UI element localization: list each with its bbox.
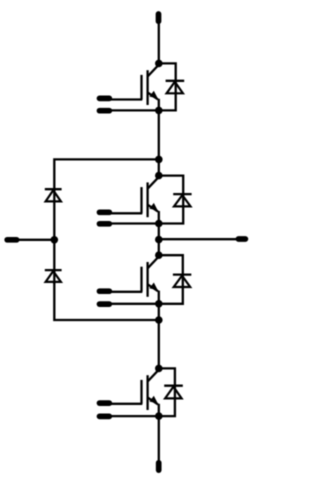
emitter terminal E4 bbox=[100, 413, 159, 419]
gate terminal G1 bbox=[100, 98, 143, 99]
wire (E1 to Q2 collector) bbox=[158, 110, 160, 175]
diode D2 (antiparallel with Q2) bbox=[159, 176, 192, 224]
emitter terminal E2 bbox=[100, 221, 159, 227]
terminal DC+ (top) bbox=[156, 14, 162, 21]
diode D6 (lower clamp) bbox=[45, 240, 62, 284]
wire (E3 to Q4 collector) bbox=[158, 304, 160, 369]
gate terminal G4 bbox=[100, 400, 143, 406]
node E4 bbox=[155, 412, 163, 420]
node A (upper clamp junction) bbox=[155, 156, 163, 164]
node M (rail junction) bbox=[51, 236, 59, 244]
node E3 bbox=[155, 300, 163, 308]
wire (E2 to Q3 collector through output node) bbox=[158, 224, 160, 256]
node C2 bbox=[155, 172, 163, 180]
IGBT Q1 bbox=[142, 65, 159, 111]
node C1 bbox=[155, 60, 163, 68]
gate terminal G3 bbox=[100, 288, 143, 294]
IGBT Q4 bbox=[142, 370, 159, 416]
diode D3 (antiparallel with Q3) bbox=[159, 255, 192, 304]
emitter terminal E1 bbox=[100, 108, 159, 114]
wire (E4 to bottom terminal) bbox=[158, 416, 160, 465]
diode D5 (upper clamp) bbox=[45, 188, 62, 240]
terminal N (left midpoint) bbox=[7, 237, 54, 243]
IGBT Q2 bbox=[142, 177, 159, 224]
terminal DC- (bottom) bbox=[156, 463, 162, 470]
node C4 bbox=[155, 365, 163, 373]
emitter terminal E3 bbox=[100, 301, 159, 307]
gate terminal G2 bbox=[100, 212, 143, 213]
wire (output node to right terminal) bbox=[159, 238, 239, 240]
node E2 bbox=[155, 220, 163, 228]
node OUT bbox=[155, 236, 163, 244]
diode D1 (antiparallel with Q1) bbox=[159, 63, 184, 110]
node C3 bbox=[155, 251, 163, 259]
node E1 bbox=[155, 107, 163, 115]
IGBT Q3 bbox=[142, 257, 159, 304]
wire (clamp node A to left rail) bbox=[54, 159, 159, 191]
terminal AC (right output) bbox=[238, 236, 245, 242]
wire (top terminal to Q1 collector) bbox=[158, 18, 160, 63]
wire (left rail to clamp node B) bbox=[54, 282, 159, 320]
node B (lower clamp junction) bbox=[155, 316, 163, 324]
diode D4 (antiparallel with Q4) bbox=[159, 368, 183, 416]
